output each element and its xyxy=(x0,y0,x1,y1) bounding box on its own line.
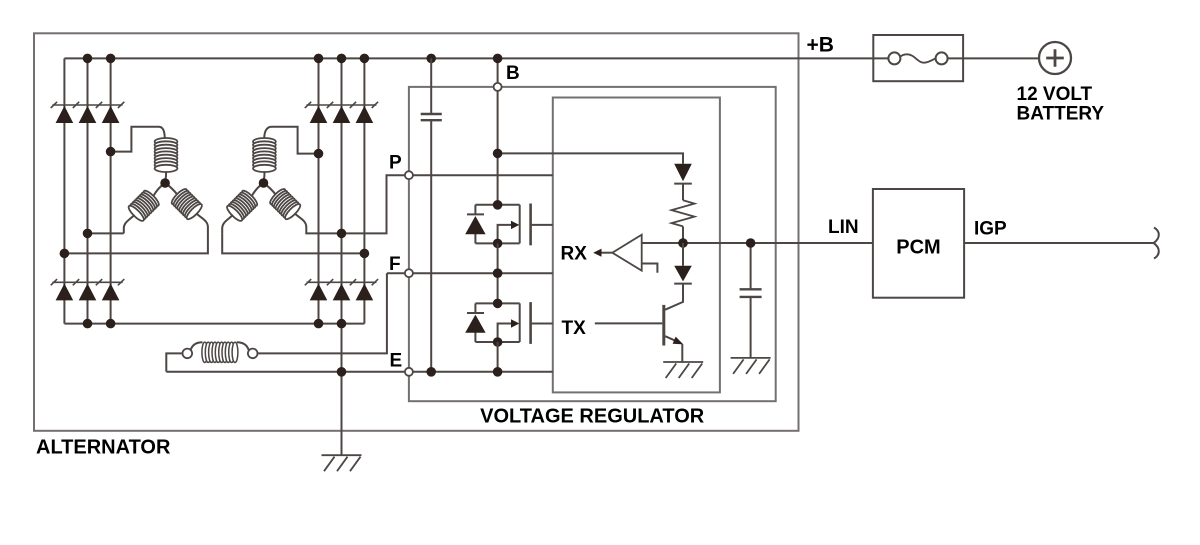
wire: emitter to ground xyxy=(681,344,683,362)
wire: fuse to battery xyxy=(947,57,1040,59)
capacitor C2 xyxy=(740,289,762,297)
junction dot phase L1 tap xyxy=(60,249,70,259)
junction dot phase R3 tap xyxy=(360,249,370,259)
rectifier diode right bottom 3 xyxy=(356,284,374,301)
MOSFET Q2 (LIN driver) with zener xyxy=(467,303,520,342)
capacitor C1 stem xyxy=(430,58,432,371)
rectifier diode left bottom 2 xyxy=(79,284,97,301)
wire: left coil bottom hook xyxy=(164,171,167,181)
svg-text:P: P xyxy=(389,153,402,174)
cathode squiggle bar (right bottom) xyxy=(307,281,377,283)
diode D1 in divider chain xyxy=(674,164,692,181)
junction dot RX node xyxy=(678,238,688,248)
gate bar of Q1 (field driver) xyxy=(529,204,532,246)
svg-text:IGP: IGP xyxy=(974,219,1007,240)
wire: left left leg hook xyxy=(124,215,135,234)
cathode squiggle bar (right top) xyxy=(307,104,377,106)
junction dot phase L2 tap xyxy=(83,229,93,239)
wire: D1 to resistor xyxy=(682,184,684,201)
wire: IGP line xyxy=(964,242,1153,244)
source arrow of Q2 (LIN driver) xyxy=(511,319,519,327)
wire: right left leg hook xyxy=(222,215,233,234)
svg-text:B: B xyxy=(506,63,520,84)
wire: left winding right leg to phase L1 xyxy=(64,227,208,253)
comparator reference stub xyxy=(642,264,658,273)
wire: left phase line 2 xyxy=(87,58,89,323)
brush left (slip ring) xyxy=(183,349,193,359)
terminal F xyxy=(405,269,413,277)
voltage regulator box xyxy=(409,87,776,401)
svg-text:TX: TX xyxy=(562,318,587,339)
brush right (slip ring) xyxy=(248,349,258,359)
wire: right phase line 2 xyxy=(341,58,343,323)
MOSFET Q1 (field driver) with zener xyxy=(467,205,520,244)
junction: left top tap dot xyxy=(106,147,116,157)
fuse terminal right xyxy=(936,52,948,64)
gate bar of Q2 (LIN driver) xyxy=(529,302,532,344)
battery circle xyxy=(1039,42,1071,74)
ground symbol (regulator IC) xyxy=(663,362,703,378)
drain dot of Q1 (field driver) xyxy=(493,200,503,210)
junction: right top tap dot xyxy=(314,149,324,159)
diode D2 below RX node xyxy=(682,243,684,266)
svg-text:PCM: PCM xyxy=(896,237,940,259)
wire: E line xyxy=(166,371,553,373)
stator coil left vertical xyxy=(155,138,178,172)
terminal B xyxy=(494,83,502,91)
PCM box xyxy=(873,189,964,298)
source arrow of Q1 (field driver) xyxy=(511,221,519,229)
drain dot of Q2 (LIN driver) xyxy=(493,299,503,309)
wire: LIN line to PCM xyxy=(683,242,873,244)
wire: resistor to RX node xyxy=(682,226,684,243)
junction dot F line xyxy=(493,268,503,278)
svg-text:BATTERY: BATTERY xyxy=(1017,104,1105,125)
rectifier diode left top 2 xyxy=(79,106,97,123)
RX output arrow xyxy=(601,252,612,254)
alternator enclosure box xyxy=(34,33,799,431)
rectifier diode left bottom 3 xyxy=(102,284,120,301)
wire: RX node to comparator xyxy=(642,242,683,244)
junction dots on top bus xyxy=(83,54,93,64)
terminal E xyxy=(405,368,413,376)
svg-text:RX: RX xyxy=(561,244,588,265)
rectifier diode right bottom 2 xyxy=(333,284,351,301)
wire: LIN filter branch xyxy=(750,243,752,358)
comparator U1 (RX buffer) xyxy=(612,235,641,271)
wire: D2 to transistor collector xyxy=(665,284,683,310)
wire: +B top bus xyxy=(64,57,889,59)
svg-text:E: E xyxy=(390,351,403,372)
wire: right phase line 3 xyxy=(363,58,365,323)
wire: TX base line xyxy=(595,322,663,324)
junction dot E-line / ground stem xyxy=(337,367,347,377)
battery plus sign xyxy=(1046,49,1064,67)
source dot of Q2 (LIN driver) xyxy=(493,337,503,347)
stator coil right vertical xyxy=(253,138,276,172)
junction dot LIN filter xyxy=(746,238,756,248)
rectifier diode left bottom 1 xyxy=(56,284,74,301)
wire: left phase line 1 xyxy=(63,58,65,323)
fuse element xyxy=(900,54,936,62)
junction dot sense line xyxy=(493,149,503,159)
ground symbol (LIN filter) xyxy=(731,358,771,374)
stator coil right left xyxy=(225,189,259,223)
rotor field coil xyxy=(202,342,238,362)
wire: right winding left leg to phase R3 xyxy=(222,233,364,253)
junction dots on E line xyxy=(426,367,436,377)
fuse terminal left xyxy=(888,52,900,64)
wire: Q1 source to F line xyxy=(497,243,499,303)
IGP wire break squiggle xyxy=(1154,228,1159,259)
gate lead of Q2 (LIN driver) xyxy=(531,323,553,325)
rectifier diode right top 3 xyxy=(356,106,374,123)
wire: ground stem from bottom bus xyxy=(341,324,343,456)
svg-text:VOLTAGE REGULATOR: VOLTAGE REGULATOR xyxy=(480,406,705,428)
wire: left phase line 3 xyxy=(110,58,112,323)
svg-text:+B: +B xyxy=(807,34,834,57)
wire: right brush to F terminal xyxy=(258,273,387,353)
zener body diode of Q2 (LIN driver) xyxy=(465,315,485,333)
transistor Q3 emitter xyxy=(665,336,679,342)
wire: Q2 source to E line xyxy=(497,342,499,372)
rectifier diode left top 3 xyxy=(102,106,120,123)
wire: right phase line 1 xyxy=(318,58,320,323)
source dot of Q1 (field driver) xyxy=(493,239,503,249)
wire: right winding top tap xyxy=(264,127,318,154)
junction dots bottom bus xyxy=(83,319,93,329)
wire: F line xyxy=(387,272,553,274)
transistor Q3 base bar xyxy=(662,305,665,346)
capacitor C1 xyxy=(421,114,442,120)
wire: right winding right leg to P terminal xyxy=(306,175,409,233)
wire: sense line to divider chain xyxy=(498,153,683,163)
wire: left winding left leg to phase L2 xyxy=(88,232,124,234)
zener body diode of Q1 (field driver) xyxy=(465,216,485,234)
svg-text:12 VOLT: 12 VOLT xyxy=(1017,84,1093,105)
wire: B line from bus to MOSFETs xyxy=(497,58,499,204)
rectifier diode left top 1 xyxy=(56,106,74,123)
wire: right coil bottom hook xyxy=(263,171,266,181)
junction: left Y-center dot xyxy=(160,178,170,188)
rectifier diode right top 1 xyxy=(310,106,328,123)
stator coil left right xyxy=(170,187,204,221)
wire: left right leg hook xyxy=(196,213,208,227)
resistor R1 xyxy=(672,200,695,226)
regulator control IC inner box xyxy=(553,98,720,393)
cathode squiggle bar (left top) xyxy=(52,104,122,106)
wire: left brush to E line xyxy=(166,353,182,371)
field coil leads xyxy=(191,342,249,350)
rectifier diode right top 2 xyxy=(333,106,351,123)
wire: left Y-center hooks xyxy=(153,183,177,196)
svg-text:ALTERNATOR: ALTERNATOR xyxy=(36,437,171,459)
junction dot phase R2 tap xyxy=(337,229,347,239)
wire: right Y-center hooks xyxy=(252,183,276,196)
stator coil left left xyxy=(127,189,161,223)
stator coil right right xyxy=(268,187,302,221)
gate lead of Q1 (field driver) xyxy=(531,224,553,226)
rectifier diode right bottom 1 xyxy=(310,284,328,301)
wire: P line into regulator xyxy=(409,174,553,176)
svg-text:F: F xyxy=(389,254,401,275)
wire: left winding top tap xyxy=(111,127,165,152)
svg-text:LIN: LIN xyxy=(828,217,859,238)
junction: right Y-center dot xyxy=(259,178,269,188)
wire: right right leg hook xyxy=(294,213,306,227)
ground symbol (alternator case) xyxy=(322,455,362,471)
fuse box xyxy=(873,35,963,81)
wire: bottom rectifier bus xyxy=(64,323,364,325)
terminal P xyxy=(405,171,413,179)
cathode squiggle bar (left bottom) xyxy=(52,281,122,283)
